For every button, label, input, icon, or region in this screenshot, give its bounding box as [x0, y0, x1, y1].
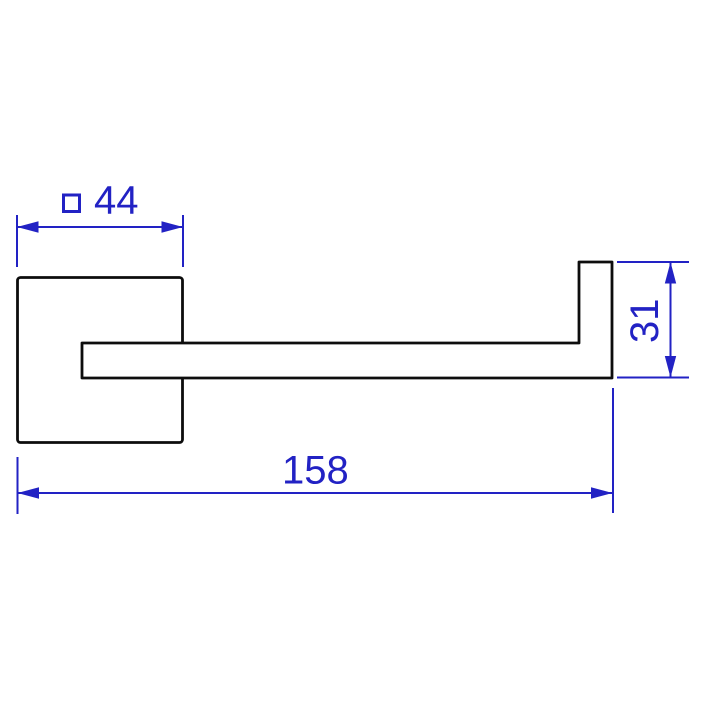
- svg-text:31: 31: [623, 299, 667, 344]
- svg-text:158: 158: [282, 449, 349, 493]
- svg-text:44: 44: [94, 179, 139, 223]
